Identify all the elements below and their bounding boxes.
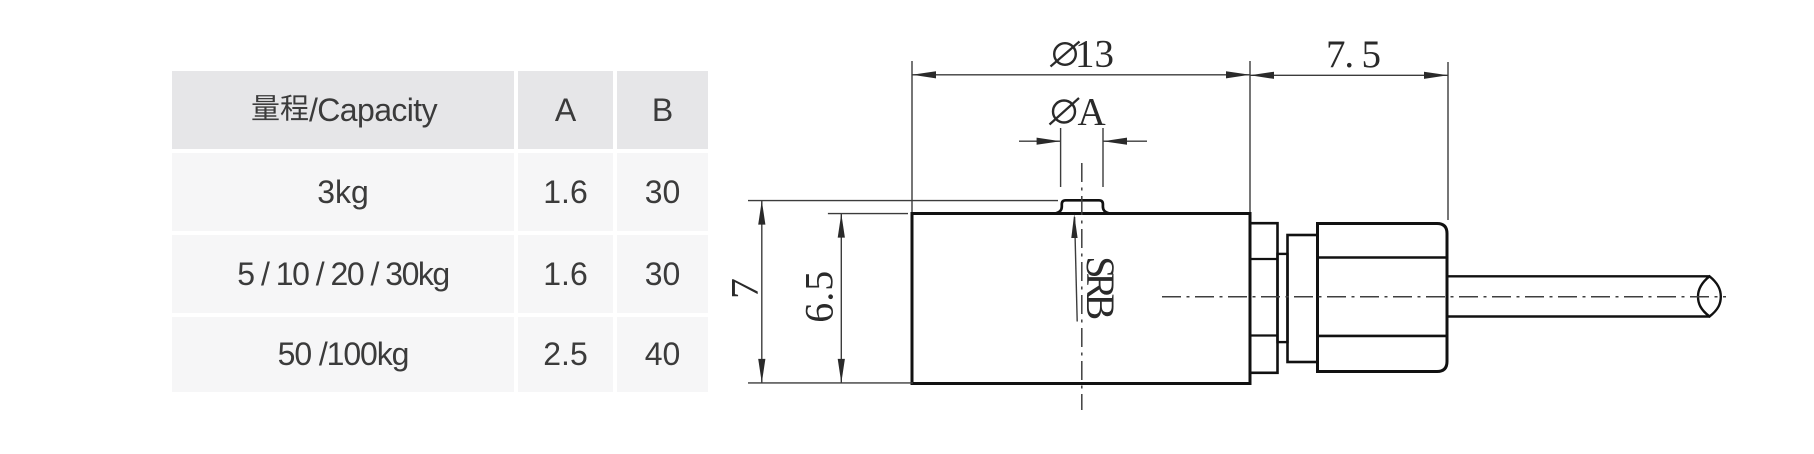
dim 7.5 right extension line [1447,62,1449,220]
arrowhead 7 bottom [758,359,765,383]
row 3 [172,317,514,392]
arrowhead 6.5 top [838,214,845,238]
arrowhead SRB leader (pointing up) [1071,214,1077,238]
dim 6.5 dimension line [840,214,842,383]
hex nut flats [1318,256,1448,259]
cable bottom line [1447,315,1710,317]
hex nut body [1318,224,1448,372]
dim ØA right arrow line [1103,140,1147,142]
neck [1278,254,1288,342]
svg-text:A: A [1078,90,1106,133]
arrowhead 7 top [758,201,765,225]
collar 1 chamfer lines [1250,258,1278,260]
main body [912,214,1250,384]
text ØA [1050,90,1106,133]
dim 7.5 dimension line [1250,74,1448,76]
arrowhead Ø13 right [1226,71,1250,78]
dim 6.5 top extension line [828,213,908,215]
dim ØA right extension line [1102,128,1104,187]
svg-text:SRB: SRB [1078,256,1123,320]
arrowhead 7.5 left [1250,72,1274,79]
boss on top of body [1056,200,1110,213]
horizontal centerline [1162,296,1726,298]
text Ø13 [1051,32,1115,75]
dim Ø13 left extension line [911,61,913,212]
arrowhead ØA left (pointing right) [1037,138,1061,145]
arrowhead Ø13 left [912,71,936,78]
dim Ø13 right extension line [1249,61,1251,212]
arrowhead ØA right (pointing left) [1103,138,1127,145]
svg-text:13: 13 [1075,32,1114,75]
dim Ø13 dimension line [912,74,1250,76]
dim 7 dimension line [761,201,763,383]
svg-text:7: 7 [724,278,767,299]
row 1 [172,153,514,231]
arrowhead 6.5 bottom [838,359,845,383]
arrowhead 7.5 right [1424,72,1448,79]
collar 2 [1288,235,1318,362]
svg-text:6.5: 6.5 [797,271,842,323]
table header A cell [518,71,613,149]
row 2 [172,235,514,313]
dim 7 bottom extension line [748,382,913,384]
svg-text:7. 5: 7. 5 [1326,33,1381,76]
cable top line [1447,275,1710,277]
table header capacity cell [172,71,514,149]
cable end lens [1698,276,1721,316]
collar 1 [1250,223,1278,373]
SRB leader line [1075,217,1078,322]
dim ØA left extension line [1060,128,1062,187]
dim 7 top extension line [748,200,1058,202]
dim ØA left arrow line [1019,140,1061,142]
table header B cell [617,71,708,149]
vertical centerline through boss [1081,163,1083,410]
